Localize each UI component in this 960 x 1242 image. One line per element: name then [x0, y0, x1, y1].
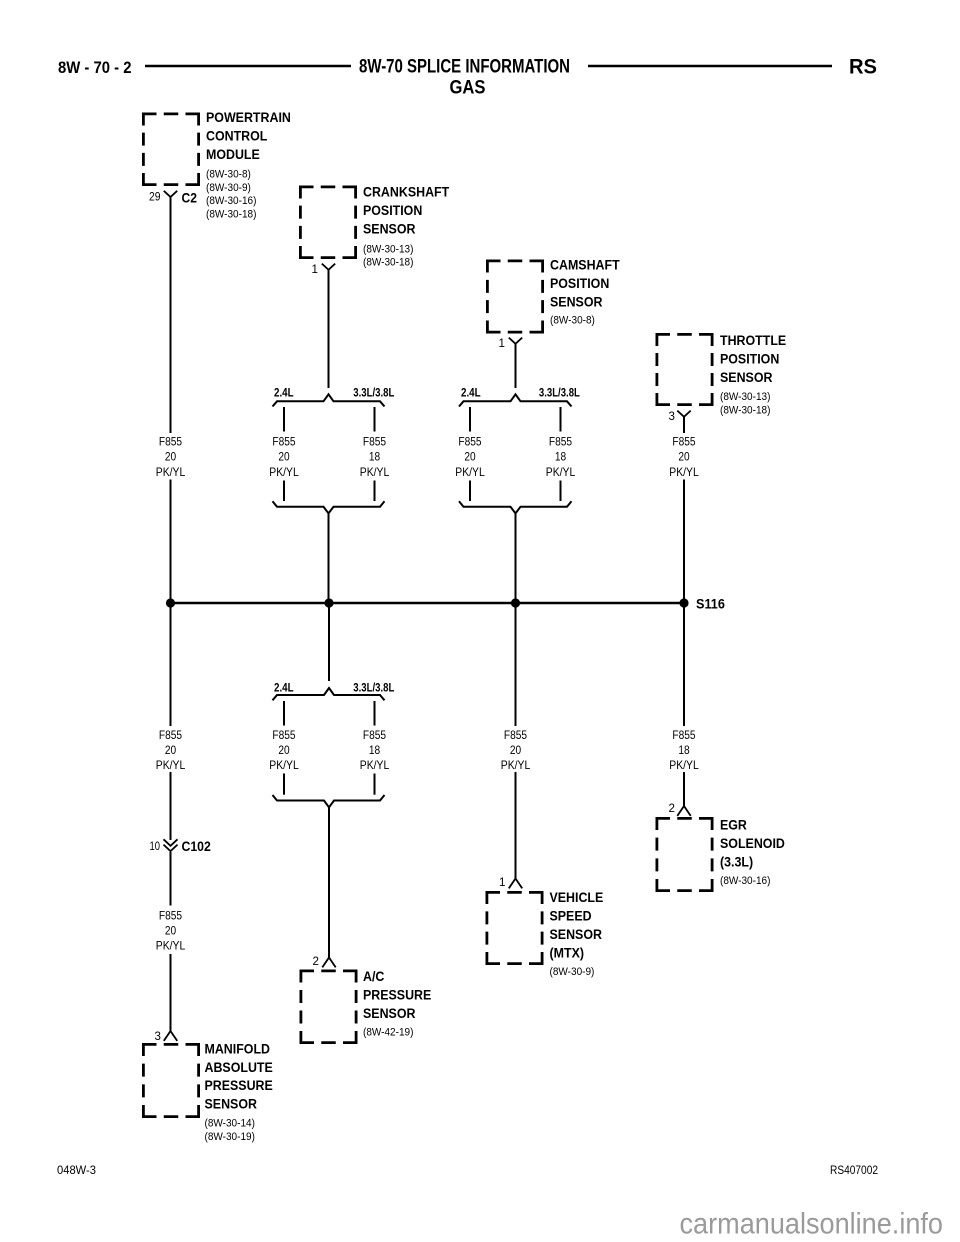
wire label F855 20 PK/YL column C lower: [501, 728, 531, 772]
svg-text:VEHICLE: VEHICLE: [550, 890, 604, 905]
A/C pressure sensor box: [300, 970, 358, 1045]
wire label F855 18 PK/YL branch 3.3L: [360, 435, 390, 479]
svg-text:EGR: EGR: [720, 818, 747, 833]
svg-text:2.4L: 2.4L: [461, 385, 481, 399]
svg-text:F855: F855: [672, 435, 695, 449]
svg-text:1: 1: [499, 876, 505, 889]
svg-text:F855: F855: [672, 728, 695, 742]
svg-text:8W-70 SPLICE INFORMATION: 8W-70 SPLICE INFORMATION: [359, 57, 570, 78]
svg-text:SENSOR: SENSOR: [720, 370, 773, 385]
svg-text:18: 18: [678, 743, 690, 757]
svg-text:8W - 70 - 2: 8W - 70 - 2: [58, 58, 132, 77]
EGR solenoid label: [720, 818, 785, 870]
engine labels upper right split: [461, 385, 580, 399]
wire label F855 20 PK/YL column D: [669, 435, 699, 479]
svg-text:(8W-30-16): (8W-30-16): [206, 195, 257, 207]
wire label to C102: [170, 772, 172, 840]
svg-text:F855: F855: [504, 728, 527, 742]
svg-text:SENSOR: SENSOR: [205, 1097, 258, 1112]
stub below label 3.3L lower: [374, 774, 376, 795]
svg-text:POSITION: POSITION: [363, 203, 422, 218]
wire label F855 20 PK/YL lower 2.4L: [269, 728, 299, 772]
splice junction dot column D: [679, 598, 688, 607]
split brace crankshaft: [273, 394, 385, 406]
svg-text:ABSOLUTE: ABSOLUTE: [205, 1060, 273, 1075]
stub 3.3L branch upper right: [560, 407, 562, 432]
wire crankshaft pin1 down: [328, 270, 330, 388]
merge brace crankshaft: [273, 501, 385, 513]
svg-text:F855: F855: [272, 728, 295, 742]
vehicle speed sensor pin 1 symbol: [509, 879, 522, 889]
svg-text:3.3L/3.8L: 3.3L/3.8L: [353, 385, 394, 399]
svg-text:3.3L/3.8L: 3.3L/3.8L: [353, 680, 394, 694]
header rule left: [145, 65, 351, 67]
svg-text:18: 18: [369, 450, 381, 464]
split brace below S116: [273, 688, 385, 700]
svg-text:(8W-30-16): (8W-30-16): [720, 875, 771, 887]
stub 3.3L branch lower: [374, 701, 376, 726]
merge brace above A/C sensor: [273, 795, 385, 807]
splice junction dot column B: [324, 598, 333, 607]
svg-text:18: 18: [369, 743, 381, 757]
wire label to splice S116 column A: [170, 480, 172, 604]
throttle position sensor box: [656, 333, 714, 406]
svg-text:F855: F855: [549, 435, 572, 449]
stub below label cam 2.4L: [469, 481, 471, 502]
MAP sensor pin 3 symbol: [164, 1031, 177, 1041]
svg-text:1: 1: [312, 263, 318, 276]
wire label F855 18 PK/YL lower 3.3L: [360, 728, 390, 772]
svg-text:(8W-30-18): (8W-30-18): [720, 404, 771, 416]
wire label F855 20 PK/YL column A lower: [156, 728, 186, 772]
stub 3.3L branch upper left: [374, 407, 376, 432]
svg-text:F855: F855: [363, 728, 386, 742]
splice junction dot column C: [511, 598, 520, 607]
connector C2 pin 29 symbol: [164, 191, 177, 197]
vehicle speed sensor label: [550, 890, 604, 960]
svg-text:PRESSURE: PRESSURE: [205, 1078, 273, 1093]
stub below label 2.4L upper left: [283, 481, 285, 502]
svg-text:(MTX): (MTX): [550, 945, 585, 960]
svg-text:29: 29: [149, 191, 161, 204]
svg-text:PK/YL: PK/YL: [669, 758, 699, 772]
camshaft sensor pin 1 symbol: [509, 338, 522, 344]
svg-text:PK/YL: PK/YL: [269, 465, 299, 479]
svg-text:(8W-30-9): (8W-30-9): [206, 182, 251, 194]
svg-text:20: 20: [165, 450, 177, 464]
svg-text:SENSOR: SENSOR: [363, 1006, 416, 1021]
svg-text:A/C: A/C: [363, 969, 385, 984]
svg-text:1: 1: [499, 337, 505, 350]
wire label F855 20 PK/YL below C102: [156, 909, 186, 953]
wire S116 down column D: [683, 603, 685, 726]
engine labels lower split: [274, 680, 394, 694]
svg-text:(8W-30-13): (8W-30-13): [363, 243, 414, 255]
splice S116 bus wire: [171, 602, 685, 605]
svg-text:10: 10: [150, 840, 161, 853]
EGR solenoid box: [656, 817, 714, 892]
wire S116 down column B: [328, 603, 330, 681]
svg-text:PK/YL: PK/YL: [156, 758, 186, 772]
svg-text:(3.3L): (3.3L): [720, 854, 753, 869]
crankshaft sensor pin 1 symbol: [322, 264, 335, 270]
svg-text:20: 20: [678, 450, 690, 464]
svg-text:S116: S116: [696, 596, 725, 612]
powertrain control module box: [142, 113, 200, 187]
svg-text:SPEED: SPEED: [550, 909, 592, 924]
svg-text:SENSOR: SENSOR: [550, 927, 603, 942]
svg-text:3: 3: [669, 410, 675, 423]
svg-text:SENSOR: SENSOR: [550, 294, 603, 309]
wire S116 down column C: [515, 603, 517, 726]
wire C102 to label F855 below: [170, 852, 172, 906]
svg-text:F855: F855: [272, 435, 295, 449]
svg-text:20: 20: [278, 450, 290, 464]
svg-text:POSITION: POSITION: [550, 276, 609, 291]
svg-text:PK/YL: PK/YL: [156, 465, 186, 479]
svg-text:POSITION: POSITION: [720, 351, 779, 366]
svg-text:2: 2: [669, 802, 675, 815]
svg-text:18: 18: [555, 450, 567, 464]
crankshaft position sensor label: [363, 185, 450, 237]
svg-text:20: 20: [464, 450, 476, 464]
svg-text:048W-3: 048W-3: [57, 1163, 96, 1177]
svg-text:C2: C2: [182, 190, 198, 206]
svg-text:(8W-30-9): (8W-30-9): [550, 966, 595, 978]
svg-text:carmanualsonline.info: carmanualsonline.info: [680, 1208, 944, 1241]
header rule right: [588, 65, 832, 67]
split brace camshaft: [459, 394, 572, 406]
svg-text:POWERTRAIN: POWERTRAIN: [206, 110, 291, 125]
wire C2-29 to label F855 upper: [170, 197, 172, 433]
wire label to EGR solenoid: [683, 772, 685, 806]
splice junction dot column A: [166, 598, 175, 607]
svg-text:PK/YL: PK/YL: [501, 758, 531, 772]
vehicle speed sensor box: [486, 891, 544, 965]
svg-text:(8W-30-8): (8W-30-8): [550, 314, 595, 326]
A/C pressure sensor label: [363, 969, 431, 1021]
svg-text:20: 20: [510, 743, 522, 757]
wire label F855 20 PK/YL column A upper: [156, 435, 186, 479]
svg-text:SOLENOID: SOLENOID: [720, 836, 785, 851]
EGR solenoid pin 2 symbol: [677, 806, 690, 816]
svg-text:3.3L/3.8L: 3.3L/3.8L: [539, 385, 580, 399]
svg-text:(8W-30-19): (8W-30-19): [205, 1131, 256, 1143]
svg-text:RS: RS: [849, 56, 877, 79]
svg-text:SENSOR: SENSOR: [363, 221, 416, 236]
svg-text:F855: F855: [363, 435, 386, 449]
stub below label 3.3L upper left: [374, 481, 376, 502]
stub 2.4L branch lower: [283, 701, 285, 726]
camshaft position sensor label: [550, 258, 620, 310]
wire label F855 18 PK/YL cam 3.3L: [546, 435, 576, 479]
throttle sensor pin 3 symbol: [677, 411, 690, 417]
wire camshaft pin1 down: [515, 344, 517, 388]
stub 2.4L branch upper left: [283, 407, 285, 432]
wire label to MAP sensor: [170, 954, 172, 1031]
svg-text:PRESSURE: PRESSURE: [363, 987, 431, 1002]
svg-text:MANIFOLD: MANIFOLD: [205, 1041, 271, 1056]
A/C pressure sensor pin 2 symbol: [322, 958, 335, 968]
svg-text:PK/YL: PK/YL: [669, 465, 699, 479]
svg-text:F855: F855: [159, 909, 182, 923]
svg-text:CRANKSHAFT: CRANKSHAFT: [363, 185, 450, 200]
wire merge to splice S116 column C: [515, 513, 517, 603]
svg-text:(8W-30-18): (8W-30-18): [206, 208, 257, 220]
svg-text:F855: F855: [159, 435, 182, 449]
powertrain control module label: [206, 110, 291, 162]
stub 2.4L branch upper right: [469, 407, 471, 432]
svg-text:CAMSHAFT: CAMSHAFT: [550, 258, 620, 273]
svg-text:PK/YL: PK/YL: [455, 465, 485, 479]
wire S116 to label column A lower: [170, 603, 172, 726]
svg-text:F855: F855: [458, 435, 481, 449]
svg-text:PK/YL: PK/YL: [156, 939, 186, 953]
svg-text:GAS: GAS: [450, 78, 486, 99]
wire label F855 20 PK/YL branch 2.4L: [269, 435, 299, 479]
svg-text:20: 20: [165, 743, 177, 757]
wire merge to splice S116 column B: [328, 513, 330, 603]
svg-text:2.4L: 2.4L: [274, 385, 294, 399]
manifold absolute pressure sensor label: [205, 1041, 273, 1111]
svg-text:PK/YL: PK/YL: [360, 465, 390, 479]
stub below label 2.4L lower: [283, 774, 285, 795]
svg-text:C102: C102: [182, 838, 211, 854]
svg-text:20: 20: [165, 924, 177, 938]
svg-text:CONTROL: CONTROL: [206, 128, 267, 143]
svg-text:(8W-30-14): (8W-30-14): [205, 1118, 256, 1130]
engine labels upper left split: [274, 385, 394, 399]
svg-text:PK/YL: PK/YL: [269, 758, 299, 772]
svg-text:PK/YL: PK/YL: [546, 465, 576, 479]
svg-text:(8W-42-19): (8W-42-19): [363, 1026, 414, 1038]
camshaft position sensor box: [486, 260, 544, 334]
svg-text:PK/YL: PK/YL: [360, 758, 390, 772]
svg-text:MODULE: MODULE: [206, 147, 260, 162]
wire label F855 18 PK/YL column D lower: [669, 728, 699, 772]
svg-text:THROTTLE: THROTTLE: [720, 333, 786, 348]
svg-text:2: 2: [313, 955, 319, 968]
merge brace camshaft: [459, 501, 572, 513]
svg-text:(8W-30-8): (8W-30-8): [206, 169, 251, 181]
wire label F855 20 PK/YL cam 2.4L: [455, 435, 485, 479]
wire merge to A/C pressure sensor: [328, 807, 330, 957]
wire label to splice S116 column D: [683, 480, 685, 604]
wire label to vehicle speed sensor: [515, 772, 517, 879]
in-line connector C102 symbol: [164, 839, 178, 851]
stub below label cam 3.3L: [560, 481, 562, 502]
crankshaft position sensor box: [299, 186, 357, 260]
svg-text:20: 20: [278, 743, 290, 757]
svg-text:F855: F855: [159, 728, 182, 742]
svg-text:3: 3: [155, 1030, 161, 1043]
throttle position sensor label: [720, 333, 786, 385]
svg-text:RS407002: RS407002: [830, 1163, 878, 1177]
manifold absolute pressure sensor box: [142, 1043, 200, 1118]
svg-text:(8W-30-13): (8W-30-13): [720, 391, 771, 403]
wire throttle pin3 down: [683, 417, 685, 433]
svg-text:(8W-30-18): (8W-30-18): [363, 257, 414, 269]
svg-text:2.4L: 2.4L: [274, 680, 294, 694]
